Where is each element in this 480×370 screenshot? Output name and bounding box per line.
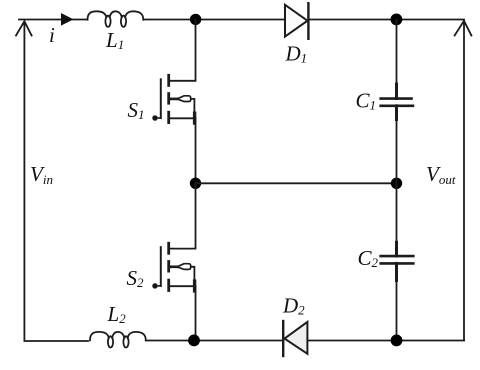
svg-text:Vout: Vout [426, 162, 456, 187]
Vin arrow [16, 21, 32, 35]
wire top-left segment [19, 19, 88, 21]
node junction D1/C1/output [391, 14, 403, 26]
wire mid link [196, 182, 397, 184]
capacitor C1 [381, 97, 412, 100]
wire mid node to S2 drain [170, 183, 196, 248]
wire S2 source to bottom node [195, 286, 197, 340]
wire L2 to bottom node [146, 340, 283, 342]
svg-text:L1: L1 [105, 28, 124, 52]
Vout arrow [455, 21, 472, 36]
wire C2 lower [396, 263, 398, 340]
diode D2 [282, 321, 284, 356]
node junction D2/C2/output [391, 335, 403, 347]
capacitor C2 [381, 255, 414, 258]
inductor L1 [88, 11, 144, 19]
wire C2 upper [396, 183, 398, 256]
right rail wire [463, 21, 465, 341]
node junction C1/C2/mid-wire [391, 178, 402, 189]
svg-text:D1: D1 [285, 42, 308, 66]
wire S1 source to mid node [195, 118, 197, 183]
transistor S2 [153, 243, 196, 291]
node junction L1/S1/D1 [190, 14, 201, 25]
node junction S1/S2/mid-wire [190, 178, 201, 189]
wire L1 to D1 [143, 19, 285, 21]
svg-text:S2: S2 [127, 266, 145, 290]
wire D2 to bottom-right corner [307, 340, 464, 342]
node junction L2/S2/D2 [188, 335, 200, 347]
svg-text:L2: L2 [107, 302, 127, 326]
diode D1 [285, 5, 308, 37]
svg-text:S1: S1 [128, 98, 145, 122]
current arrow i [61, 13, 74, 26]
svg-text:C2: C2 [358, 246, 379, 270]
svg-text:D2: D2 [282, 294, 305, 318]
inductor L2 [90, 332, 146, 340]
wire C1 upper [396, 20, 398, 99]
svg-text:Vin: Vin [30, 162, 53, 187]
transistor S1 [153, 75, 196, 123]
wire D1 to top-right corner [308, 19, 464, 21]
wire node to S1 drain [170, 20, 196, 81]
svg-text:i: i [49, 23, 55, 47]
wire C1 lower [396, 106, 398, 184]
left rail wire [24, 22, 88, 341]
svg-text:C1: C1 [356, 89, 377, 113]
